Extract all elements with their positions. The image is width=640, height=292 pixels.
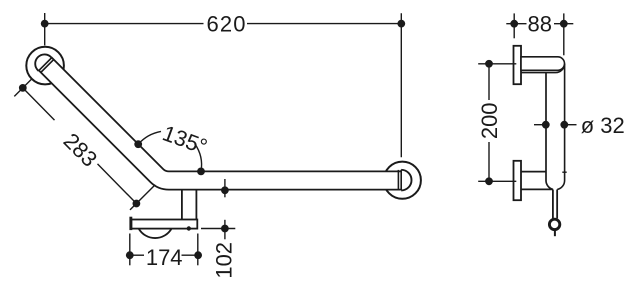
dim 283: extension line top	[14, 79, 31, 96]
dim 620: line left segment	[45, 23, 204, 25]
dim 283: extension line bottom	[130, 185, 155, 210]
dim 88: line right segment	[554, 23, 573, 25]
dim 88: extension tick right	[563, 13, 565, 55]
side view: bottom arm top edge	[521, 171, 546, 173]
dim 200: line upper segment	[488, 64, 490, 100]
dim 283: dot top	[19, 84, 27, 92]
grab bar tube fill (white)	[45, 64, 400, 181]
dim 174: dot left	[126, 251, 134, 259]
dim diameter 32: dot left	[542, 121, 550, 129]
dim 174: extension line right	[197, 234, 199, 266]
svg-text:102: 102	[211, 242, 236, 279]
side view: stem below bar	[552, 190, 554, 219]
dim 88: dot left	[510, 20, 518, 28]
dim 620: extension tick left	[44, 13, 46, 45]
flange F1 outer circle (top-left)	[26, 47, 64, 85]
svg-text:88: 88	[528, 12, 552, 37]
dim 283: line segment upper	[23, 88, 55, 120]
wall plate left end cap	[129, 217, 132, 230]
dim 102: dot top	[221, 186, 229, 194]
dim 88: extension tick left	[513, 13, 515, 38]
dim 135deg: dot on horizontal tube	[197, 168, 205, 176]
dim 200: tick top	[478, 63, 516, 65]
dim 88: line left segment	[506, 23, 526, 25]
dim 174: line right segment	[182, 254, 199, 256]
dim 102: horizontal reference line bottom	[201, 228, 235, 230]
svg-text:200: 200	[477, 102, 502, 139]
dim diameter 32: dot right	[560, 121, 568, 129]
svg-text:174: 174	[146, 245, 183, 270]
dim diameter 32: tick right	[564, 124, 576, 126]
dim 200: dot top	[485, 60, 493, 68]
dim 200: dot bottom	[485, 177, 493, 185]
side view: top wall plate	[514, 46, 522, 84]
dim 620: dot left	[41, 20, 49, 28]
dim 283: dot bottom	[133, 200, 141, 208]
grab bar tube outline (black)	[45, 64, 400, 181]
side view: vertical bar outer contour (top bend into right edge)	[521, 64, 565, 190]
side view: bottom wall plate	[514, 161, 522, 200]
dim 135deg: arc right segment	[195, 144, 202, 172]
junction dot on plate bottom	[187, 226, 191, 230]
dim 102: tick through bottom dot	[224, 220, 226, 240]
side view: bottom arm bottom edge	[521, 188, 552, 190]
dim 102: dot bottom	[221, 225, 229, 233]
flange F2 outer circle (right)	[384, 162, 421, 199]
side view: vertical bar left edge + bottom cap	[546, 73, 553, 190]
dim diameter 32: tick left	[534, 124, 546, 126]
dim 135deg: arc left segment	[138, 131, 161, 144]
side view: pin below ring	[554, 231, 556, 237]
escutcheon dome under plate	[139, 229, 172, 239]
side view: seam tick on bar right edge	[562, 171, 566, 173]
side view: ring	[549, 219, 559, 229]
dim 200: line lower segment	[488, 142, 490, 181]
dim 135deg: dot on angled tube	[134, 140, 142, 148]
tube end cap right (D-shape + double cap lines)	[401, 170, 411, 191]
dim 620: line right segment	[247, 23, 401, 25]
wall plate (front view)	[131, 220, 197, 229]
dim 620: dot right	[397, 20, 405, 28]
support post under bar	[181, 190, 183, 220]
dim 102: tick above top dot	[224, 179, 226, 197]
dim 174: extension line left	[129, 234, 131, 266]
dim 174: dot right	[194, 251, 202, 259]
side view: top arm stadium	[521, 57, 565, 71]
dim 620: extension tick right	[400, 13, 402, 157]
tube end cap left (D-shape + double cap lines)	[35, 54, 51, 70]
dim 174: line left segment	[130, 254, 144, 256]
dim 88: dot right	[560, 20, 568, 28]
svg-text:ø 32: ø 32	[581, 113, 625, 138]
dim 283: line segment lower	[98, 164, 137, 204]
dim 200: tick bottom	[478, 180, 516, 182]
svg-text:620: 620	[206, 12, 246, 37]
